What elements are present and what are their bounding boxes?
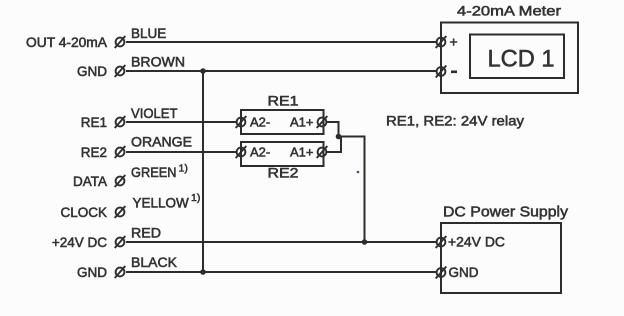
wire BLACK — [126, 271, 437, 273]
svg-text:A2-: A2- — [250, 145, 270, 160]
svg-text:A1+: A1+ — [290, 145, 314, 160]
terminal RE1 A1+ — [317, 116, 328, 128]
relay RE1 box — [241, 110, 324, 134]
junction dot black bus — [200, 269, 206, 275]
svg-text:1): 1) — [179, 163, 188, 175]
terminal RE2 A1+ — [317, 146, 328, 158]
svg-text:1): 1) — [191, 192, 200, 204]
junction dot red relay — [362, 239, 368, 245]
pin label minus — [451, 71, 457, 74]
svg-text:DC Power Supply: DC Power Supply — [443, 204, 569, 221]
LCD 1 box — [470, 35, 564, 79]
svg-text:RED: RED — [131, 226, 161, 241]
svg-text:RE2: RE2 — [268, 166, 299, 181]
svg-text:RE1: RE1 — [268, 94, 299, 109]
terminal DATA — [115, 175, 126, 187]
svg-text:ORANGE: ORANGE — [131, 135, 192, 150]
wire BROWN — [126, 70, 437, 72]
wire VIOLET — [126, 121, 237, 123]
svg-text:RE2: RE2 — [81, 145, 107, 160]
terminal GND bottom — [115, 266, 126, 278]
svg-text:VIOLET: VIOLET — [131, 106, 178, 121]
terminal supply GND — [436, 267, 447, 279]
meter box — [441, 23, 578, 94]
wire RE1 output — [327, 122, 339, 137]
svg-text:GND: GND — [77, 64, 107, 79]
svg-text:RE1, RE2: 24V relay: RE1, RE2: 24V relay — [386, 113, 524, 129]
terminal RE2 — [115, 146, 126, 158]
terminal GND top — [115, 65, 126, 77]
terminal meter minus — [436, 66, 447, 78]
svg-text:DATA: DATA — [73, 174, 107, 189]
svg-text:GND: GND — [77, 265, 107, 280]
wire relay common — [339, 137, 365, 243]
terminal CLOCK — [115, 206, 126, 218]
terminal +24V DC — [115, 236, 126, 248]
svg-text:BLUE: BLUE — [131, 26, 166, 41]
svg-text:BROWN: BROWN — [131, 55, 185, 70]
svg-text:+24V DC: +24V DC — [448, 235, 505, 250]
power supply box — [441, 223, 561, 293]
svg-text:OUT 4-20mA: OUT 4-20mA — [26, 35, 107, 50]
wire ground bus vertical — [202, 71, 204, 272]
svg-text:YELLOW: YELLOW — [133, 196, 190, 211]
terminal RE2 A2- — [236, 146, 247, 158]
svg-text:A2-: A2- — [250, 115, 270, 130]
svg-text:+: + — [450, 34, 458, 50]
wire ORANGE — [126, 151, 237, 153]
svg-text:A1+: A1+ — [290, 115, 314, 130]
svg-text:RE1: RE1 — [81, 115, 107, 130]
svg-text:GND: GND — [449, 265, 479, 280]
terminal RE1 — [115, 116, 126, 128]
svg-text:LCD 1: LCD 1 — [488, 46, 555, 73]
terminal RE1 A2- — [236, 116, 247, 128]
terminal supply +24V — [436, 236, 447, 248]
svg-text:4-20mA Meter: 4-20mA Meter — [457, 3, 561, 19]
svg-text:GREEN: GREEN — [131, 165, 177, 180]
wire RE2 output — [327, 137, 341, 153]
relay RE2 box — [241, 142, 324, 166]
stray blue speck — [357, 171, 360, 174]
svg-text:CLOCK: CLOCK — [60, 205, 107, 220]
terminal meter plus — [436, 36, 447, 48]
wire BLUE — [126, 41, 437, 43]
terminal OUT 4-20mA — [115, 36, 126, 48]
junction dot brown bus — [200, 68, 206, 74]
svg-text:BLACK: BLACK — [131, 255, 177, 270]
junction dot relay common — [336, 134, 342, 140]
wire RED — [126, 241, 437, 243]
svg-text:+24V DC: +24V DC — [52, 235, 107, 250]
